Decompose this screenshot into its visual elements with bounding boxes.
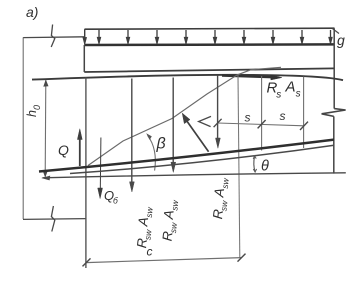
dimension ticks on s line bbox=[214, 119, 308, 130]
svg-text:sw: sw bbox=[142, 228, 153, 240]
stirrup force arrow 2 bbox=[171, 78, 176, 173]
beam right edge with break symbol bbox=[322, 28, 346, 173]
svg-text:θ: θ bbox=[261, 159, 269, 175]
svg-text:sw: sw bbox=[168, 221, 179, 233]
load intensity label g bbox=[333, 29, 346, 48]
svg-text:c: c bbox=[147, 245, 153, 259]
support reaction arrow Q bbox=[77, 129, 82, 166]
svg-text:а): а) bbox=[26, 4, 38, 20]
svg-text:Q: Q bbox=[58, 142, 69, 158]
svg-text:β: β bbox=[156, 136, 166, 153]
beam top edge bbox=[84, 43, 334, 46]
inclined crack bbox=[88, 67, 281, 165]
svg-text:s: s bbox=[296, 89, 301, 100]
label Qb bbox=[104, 188, 119, 206]
crack tip extension line to c dimension bbox=[238, 75, 240, 257]
h0 dimension line with end arrows bbox=[44, 80, 47, 176]
c dimension line bbox=[83, 254, 246, 267]
load band left edge with arrowhead bbox=[83, 29, 87, 45]
flange left edge bbox=[83, 45, 85, 72]
flange bottom edge bbox=[84, 68, 334, 72]
small angle mark bbox=[199, 116, 211, 126]
svg-text:s: s bbox=[276, 90, 281, 101]
longitudinal force arrow Rs As bbox=[222, 75, 282, 80]
svg-text:h: h bbox=[25, 110, 39, 117]
svg-text:g: g bbox=[337, 32, 345, 48]
label Rs As bbox=[267, 79, 301, 101]
bar inclination angle arc theta bbox=[253, 156, 256, 172]
svg-text:sw: sw bbox=[169, 199, 180, 211]
label h0 (rotated) bbox=[25, 105, 42, 117]
top-left dimension line with break bbox=[23, 25, 84, 48]
upper chord line (compression zone boundary) bbox=[32, 75, 343, 80]
svg-text:0: 0 bbox=[32, 105, 42, 110]
svg-text:s: s bbox=[245, 111, 251, 125]
load arrows bbox=[97, 30, 332, 45]
rotated stirrup label 2 Rsw Asw bbox=[159, 198, 182, 242]
figure label a) bbox=[26, 4, 38, 20]
bent-up bar lower line bbox=[70, 145, 334, 173]
bottom reference line with left arrowhead bbox=[41, 173, 346, 181]
crack angle arc beta bbox=[146, 133, 155, 170]
distributed load top line bbox=[85, 28, 335, 29]
beam web left edge / support section line bbox=[85, 78, 87, 269]
svg-text:б: б bbox=[113, 196, 119, 206]
s spacing dimension line bbox=[218, 76, 304, 151]
inclined bar force arrow bbox=[182, 113, 208, 152]
svg-text:s: s bbox=[280, 109, 286, 123]
bottom-left dimension line with break bbox=[23, 206, 86, 232]
stirrup force arrow 1 bbox=[130, 79, 135, 193]
svg-text:sw: sw bbox=[144, 206, 155, 218]
svg-text:sw: sw bbox=[220, 177, 231, 189]
concrete shear arrow Qb bbox=[98, 138, 103, 199]
stirrup force arrow 3 bbox=[216, 75, 221, 148]
bent-up bar upper line bbox=[39, 140, 334, 172]
svg-text:sw: sw bbox=[218, 199, 229, 211]
outer left vertical extension line bbox=[22, 37, 24, 219]
svg-text:A: A bbox=[285, 79, 296, 96]
rotated stirrup label 1 Rsw Asw bbox=[133, 205, 156, 249]
rotated stirrup label 3 Rsw Asw bbox=[209, 176, 232, 220]
